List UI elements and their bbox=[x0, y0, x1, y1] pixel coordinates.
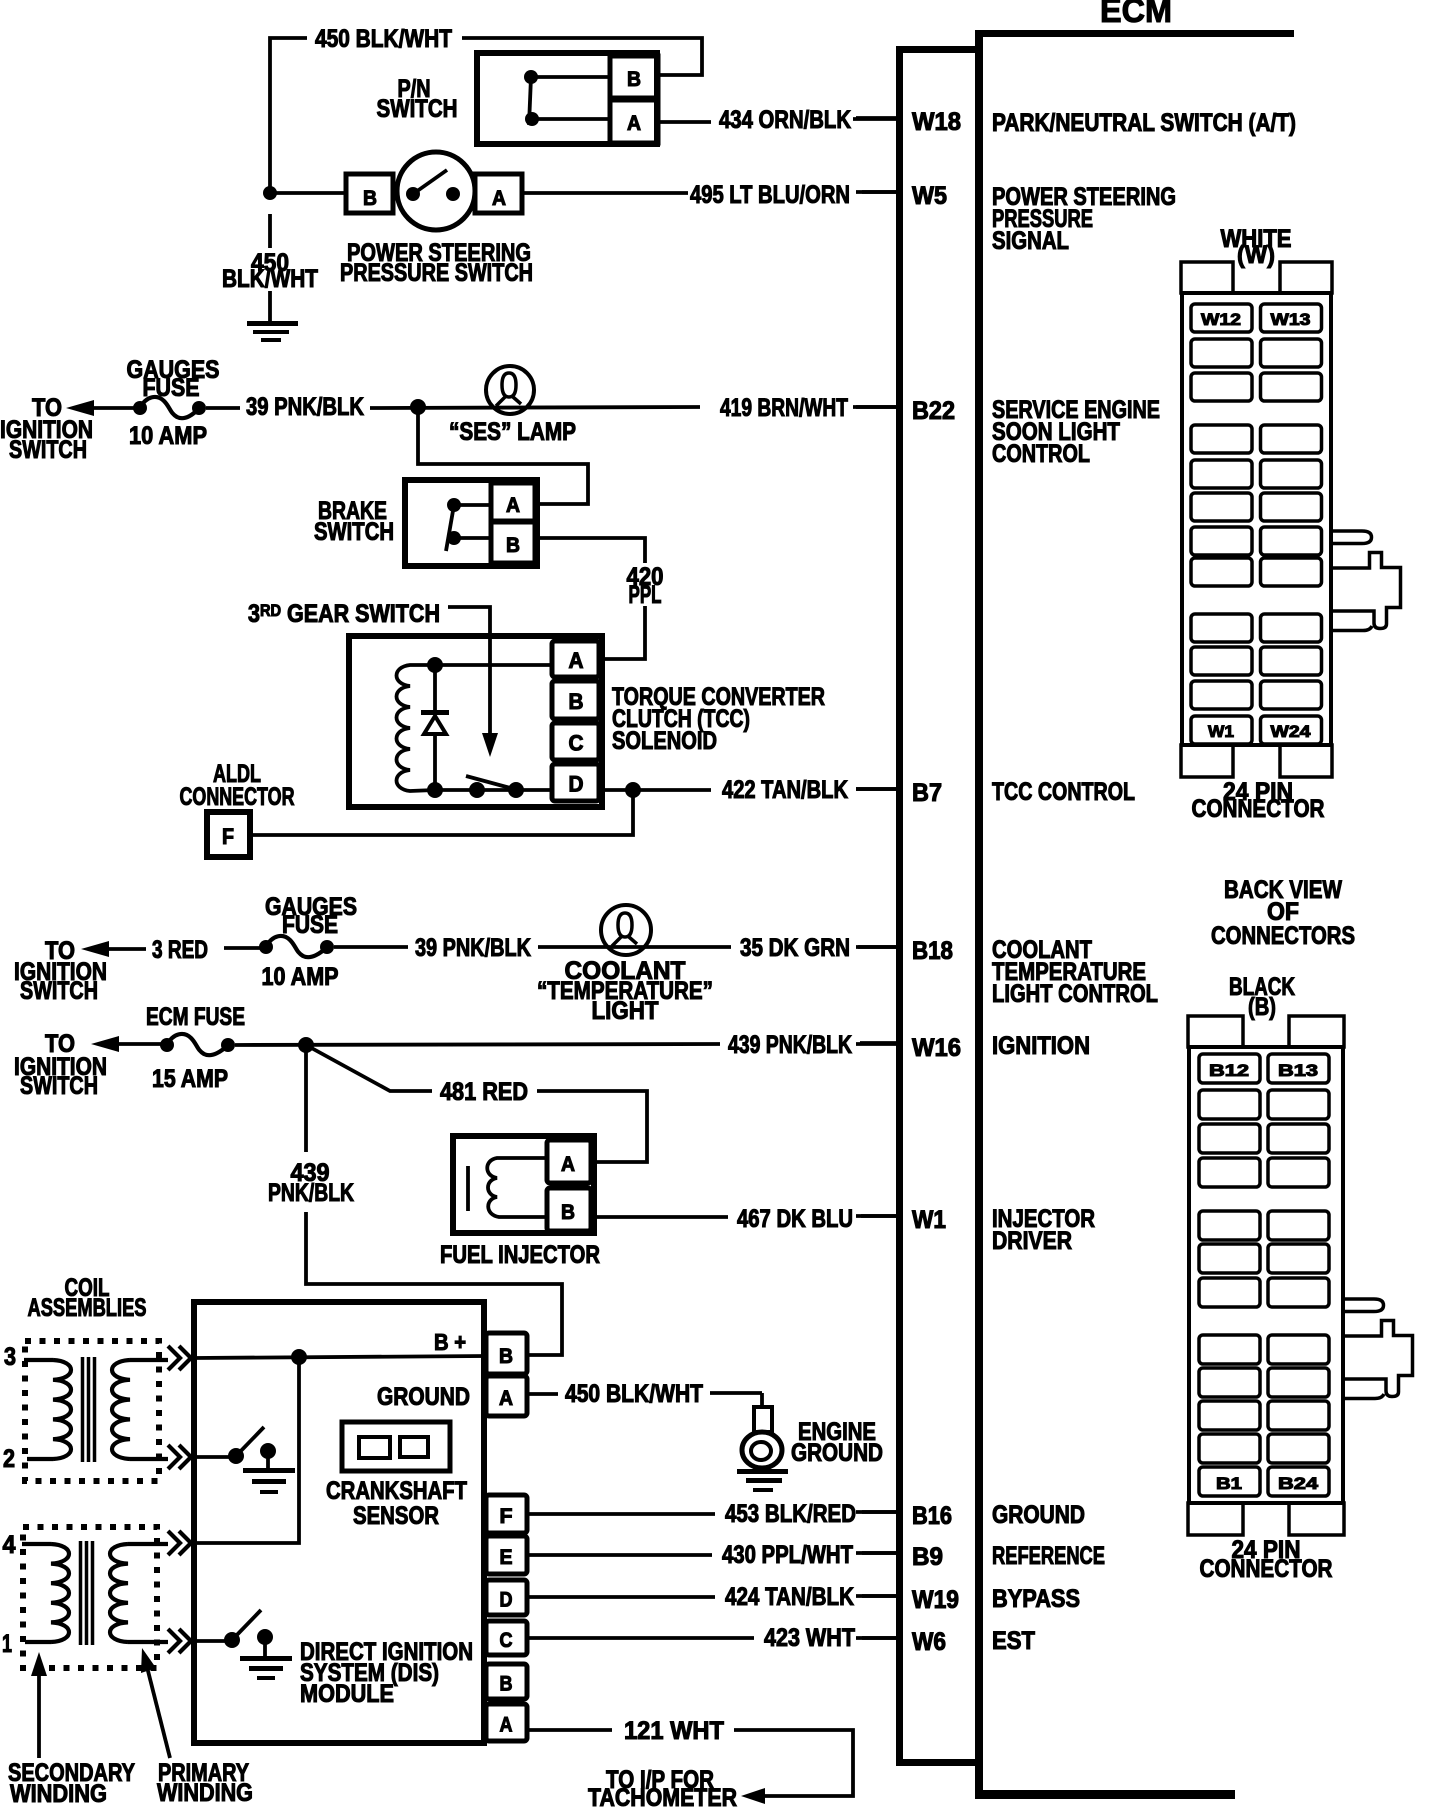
svg-text:PARK/NEUTRAL SWITCH (A/T): PARK/NEUTRAL SWITCH (A/T) bbox=[992, 109, 1296, 137]
DIS row 2 ground bbox=[266, 1451, 270, 1470]
svg-text:434 ORN/BLK: 434 ORN/BLK bbox=[719, 106, 851, 134]
svg-text:39 PNK/BLK: 39 PNK/BLK bbox=[246, 393, 364, 421]
ECM boundary bottom cap bbox=[896, 1759, 975, 1766]
black pin row 6 bbox=[1199, 1244, 1260, 1273]
wire DIS C to ECM (423 WHT) bbox=[528, 1636, 754, 1640]
svg-text:A: A bbox=[492, 187, 506, 210]
svg-text:B24: B24 bbox=[1278, 1474, 1319, 1493]
svg-text:B +: B + bbox=[434, 1329, 466, 1355]
svg-text:39 PNK/BLK: 39 PNK/BLK bbox=[415, 934, 531, 962]
svg-text:B: B bbox=[499, 1345, 513, 1368]
TCC internal wires bbox=[435, 663, 552, 667]
arrow to ignition switch (row 1) bbox=[66, 400, 94, 416]
wire ALDL F to TCC D node bbox=[250, 790, 633, 835]
svg-text:ASSEMBLIES: ASSEMBLIES bbox=[28, 1294, 147, 1322]
svg-text:B22: B22 bbox=[912, 397, 955, 425]
svg-text:B: B bbox=[627, 68, 641, 91]
DIS row 1 switch bbox=[194, 1639, 232, 1643]
svg-text:DRIVER: DRIVER bbox=[992, 1227, 1072, 1255]
svg-text:419 BRN/WHT: 419 BRN/WHT bbox=[720, 394, 848, 422]
svg-text:GROUND: GROUND bbox=[992, 1501, 1085, 1529]
ECM pin B18 stub bbox=[856, 945, 899, 949]
P/N switch contacts bbox=[524, 70, 538, 84]
svg-text:REFERENCE: REFERENCE bbox=[992, 1542, 1105, 1570]
wire brake B to TCC A (420 PPL) bbox=[537, 538, 645, 659]
svg-text:4: 4 bbox=[3, 1531, 16, 1559]
svg-text:E: E bbox=[500, 1546, 513, 1569]
white pin row 6 bbox=[1191, 493, 1252, 521]
ALDL pin F box bbox=[207, 812, 250, 857]
coil assembly dotted box coil 2 (cyl 4-1) bbox=[23, 1527, 157, 1668]
fuel injector box bbox=[453, 1136, 594, 1233]
svg-text:B18: B18 bbox=[912, 937, 953, 965]
svg-text:CONNECTOR: CONNECTOR bbox=[1200, 1555, 1333, 1583]
engine ground symbol bbox=[754, 1407, 772, 1432]
svg-text:A: A bbox=[627, 112, 641, 135]
P/N switch box bbox=[477, 53, 657, 144]
coil 1 primary winding bbox=[112, 1360, 130, 1459]
svg-text:424 TAN/BLK: 424 TAN/BLK bbox=[725, 1583, 854, 1611]
ECM top line bbox=[975, 30, 1294, 37]
coil 2 primary winding bbox=[110, 1544, 128, 1642]
black connector key profile bbox=[1343, 1299, 1413, 1399]
ECM pin B22 stub bbox=[856, 405, 899, 409]
DIS pin D (bottom) bbox=[486, 1580, 527, 1615]
wire ECM fuse to ECM (439 PNK/BLK) bbox=[235, 1044, 720, 1045]
DIS row 2 switch bbox=[194, 1455, 236, 1459]
junction node SES bbox=[410, 399, 426, 415]
coil 2 transformer core bbox=[79, 1541, 83, 1645]
coil 2 row 1 connector chevrons bbox=[168, 1629, 191, 1653]
svg-text:422 TAN/BLK: 422 TAN/BLK bbox=[722, 776, 848, 804]
white pin row 10 bbox=[1191, 647, 1252, 675]
svg-text:W16: W16 bbox=[912, 1034, 961, 1062]
svg-text:10 AMP: 10 AMP bbox=[262, 963, 339, 991]
svg-text:WINDING: WINDING bbox=[10, 1780, 107, 1808]
svg-text:(W): (W) bbox=[1237, 241, 1275, 269]
secondary winding pointer arrow bbox=[37, 1668, 41, 1758]
svg-text:B9: B9 bbox=[912, 1543, 943, 1571]
coil 1 row 3 connector chevrons bbox=[168, 1346, 191, 1370]
PS pin B bbox=[346, 174, 393, 213]
coil assembly dotted box coil 1 (cyl 3-2) bbox=[25, 1341, 159, 1481]
svg-text:B16: B16 bbox=[912, 1502, 952, 1530]
ECM pin W6 stub bbox=[856, 1636, 899, 1640]
svg-text:W13: W13 bbox=[1271, 310, 1311, 329]
svg-text:BYPASS: BYPASS bbox=[992, 1585, 1080, 1613]
svg-text:PRESSURE SWITCH: PRESSURE SWITCH bbox=[340, 259, 533, 287]
ECM pin B16 stub bbox=[856, 1510, 899, 1514]
primary winding pointer arrow bbox=[146, 1663, 170, 1758]
svg-text:WINDING: WINDING bbox=[157, 1779, 253, 1807]
DIS pin A (top) bbox=[486, 1376, 527, 1416]
wire DIS D to ECM (424 TAN/BLK) bbox=[528, 1595, 715, 1599]
wire junction to PS B bbox=[270, 191, 346, 195]
crankshaft sensor box bbox=[342, 1422, 450, 1471]
black pin row 2 bbox=[1199, 1090, 1260, 1119]
svg-text:A: A bbox=[569, 648, 584, 673]
svg-text:W12: W12 bbox=[1201, 310, 1241, 329]
svg-text:481 RED: 481 RED bbox=[440, 1078, 528, 1106]
svg-text:ECM FUSE: ECM FUSE bbox=[146, 1003, 245, 1031]
TCC pin A bbox=[552, 641, 599, 677]
ECM right boundary line bbox=[975, 30, 983, 1798]
svg-text:W24: W24 bbox=[1271, 722, 1312, 741]
svg-text:3 RED: 3 RED bbox=[152, 936, 208, 964]
svg-text:A: A bbox=[561, 1153, 575, 1176]
ECM pin W1 stub bbox=[856, 1214, 899, 1218]
svg-text:453 BLK/RED: 453 BLK/RED bbox=[725, 1500, 856, 1528]
coil 2 secondary winding leads bbox=[22, 1544, 51, 1642]
TCC pin D bbox=[552, 764, 599, 801]
white pin row 5 bbox=[1191, 460, 1252, 488]
DIS pin C (bottom) bbox=[486, 1621, 527, 1655]
ECM pin B7 stub bbox=[856, 787, 899, 791]
wire to ECM (419 BRN/WHT) bbox=[853, 405, 899, 409]
svg-text:TACHOMETER: TACHOMETER bbox=[588, 1784, 737, 1810]
white 24 pin connector body bbox=[1182, 293, 1331, 745]
ECM left boundary line bbox=[896, 46, 903, 1766]
wire PS A to ECM (495 LT BLU/ORN) bbox=[522, 191, 688, 195]
black pin row 12 bbox=[1199, 1467, 1260, 1496]
wire DIS E to ECM (430 PPL/WHT) bbox=[528, 1553, 712, 1557]
wire SES junction to brake switch A bbox=[418, 407, 588, 504]
PS switch contacts bbox=[406, 187, 420, 201]
PS pin A bbox=[475, 174, 522, 213]
ECM bottom line bbox=[975, 1790, 1235, 1799]
svg-text:W1: W1 bbox=[1208, 722, 1234, 741]
svg-text:430 PPL/WHT: 430 PPL/WHT bbox=[722, 1541, 853, 1569]
brake switch pin B bbox=[491, 522, 535, 563]
TCC solenoid box bbox=[349, 636, 602, 807]
svg-text:A: A bbox=[506, 494, 520, 517]
power steering pressure switch circle bbox=[397, 152, 475, 230]
svg-text:(B): (B) bbox=[1248, 993, 1276, 1021]
svg-text:LIGHT: LIGHT bbox=[592, 997, 659, 1025]
svg-text:A: A bbox=[500, 1714, 513, 1737]
ECM pin W5 stub bbox=[856, 190, 899, 194]
svg-text:CONNECTOR: CONNECTOR bbox=[180, 783, 295, 811]
white pin row 1 bbox=[1191, 304, 1252, 332]
P/N switch pin A bbox=[610, 100, 658, 143]
svg-text:MODULE: MODULE bbox=[300, 1680, 394, 1708]
white pin row 8 bbox=[1191, 558, 1252, 586]
svg-text:439 PNK/BLK: 439 PNK/BLK bbox=[728, 1031, 852, 1059]
wire TCC D to ECM (422 TAN/BLK) bbox=[601, 788, 711, 792]
black pin row 8 bbox=[1199, 1335, 1260, 1364]
svg-text:F: F bbox=[500, 1505, 513, 1528]
svg-text:SENSOR: SENSOR bbox=[353, 1502, 439, 1530]
svg-text:W1: W1 bbox=[912, 1206, 946, 1234]
svg-text:PNK/BLK: PNK/BLK bbox=[268, 1179, 354, 1207]
wire DIS A to tachometer (121 WHT) bbox=[528, 1730, 853, 1796]
svg-text:450 BLK/WHT: 450 BLK/WHT bbox=[315, 25, 452, 53]
coil 1 primary leads bbox=[130, 1360, 168, 1459]
ECM boundary top cap bbox=[896, 46, 975, 53]
coil 1 transformer core bbox=[81, 1357, 85, 1462]
wire 450 BLK/WHT top run bbox=[270, 38, 702, 193]
coil 2 primary leads bbox=[128, 1544, 168, 1642]
wire fuse to junction (39 PNK/BLK) bbox=[206, 406, 240, 410]
black pin row 11 bbox=[1199, 1434, 1260, 1463]
svg-text:TCC CONTROL: TCC CONTROL bbox=[992, 778, 1135, 806]
coil 2 row 4 connector chevrons bbox=[168, 1531, 191, 1555]
svg-text:35 DK GRN: 35 DK GRN bbox=[740, 934, 850, 962]
TCC pin B bbox=[552, 681, 599, 719]
svg-text:B13: B13 bbox=[1278, 1061, 1318, 1080]
white connector key profile bbox=[1331, 531, 1401, 631]
TCC coil bbox=[397, 665, 436, 791]
DIS pin B (top) bbox=[486, 1333, 527, 1374]
svg-text:PPL: PPL bbox=[629, 581, 662, 609]
svg-text:B: B bbox=[506, 534, 520, 557]
svg-text:CRANKSHAFT: CRANKSHAFT bbox=[326, 1477, 467, 1505]
svg-text:IGNITION: IGNITION bbox=[992, 1032, 1090, 1060]
white pin row 11 bbox=[1191, 681, 1252, 709]
svg-text:ECM: ECM bbox=[1100, 0, 1172, 30]
fuel injector pin B bbox=[547, 1188, 591, 1231]
black pin row 10 bbox=[1199, 1401, 1260, 1430]
white pin row 4 bbox=[1191, 425, 1252, 453]
white pin row 9 bbox=[1191, 614, 1252, 642]
wire 3rd gear arrow bbox=[448, 607, 490, 738]
svg-text:B: B bbox=[500, 1673, 513, 1696]
coolant temperature light lamp bbox=[601, 905, 651, 955]
svg-text:F: F bbox=[222, 824, 234, 849]
white connector bottom tabs bbox=[1181, 745, 1233, 777]
svg-text:W19: W19 bbox=[912, 1586, 959, 1614]
DIS pin A (bottom) bbox=[486, 1704, 527, 1741]
wire injector B to ECM (467 DK BLU) bbox=[593, 1215, 728, 1219]
svg-text:GROUND: GROUND bbox=[377, 1383, 470, 1411]
svg-text:1: 1 bbox=[2, 1630, 12, 1658]
SES lamp bbox=[486, 366, 534, 414]
svg-text:SWITCH: SWITCH bbox=[20, 977, 98, 1005]
white connector top tabs bbox=[1181, 262, 1233, 293]
svg-text:2: 2 bbox=[3, 1445, 15, 1473]
TCC internal nodes bbox=[427, 657, 443, 673]
black connector top tabs bbox=[1188, 1016, 1243, 1047]
svg-text:B: B bbox=[363, 187, 377, 210]
svg-text:450 BLK/WHT: 450 BLK/WHT bbox=[565, 1380, 703, 1408]
svg-text:CONNECTORS: CONNECTORS bbox=[1211, 922, 1355, 950]
svg-text:B1: B1 bbox=[1216, 1474, 1242, 1493]
wire P/N A to ECM (434 ORN/BLK) bbox=[660, 120, 711, 124]
fuse symbol (ECM 15 amp) bbox=[160, 1038, 174, 1052]
DIS pin E (bottom) bbox=[486, 1536, 527, 1574]
ECM pin W18 stub bbox=[856, 116, 899, 120]
svg-text:15 AMP: 15 AMP bbox=[152, 1065, 228, 1093]
coil 1 secondary winding leads bbox=[24, 1360, 53, 1459]
wire 439 PNK/BLK vertical to DIS B+ bbox=[306, 1045, 562, 1355]
DIS module box bbox=[194, 1302, 484, 1743]
svg-text:B12: B12 bbox=[1209, 1061, 1249, 1080]
DIS pin F (bottom) bbox=[486, 1495, 527, 1533]
wire DIS F to ECM (453 BLK/RED) bbox=[528, 1512, 715, 1516]
ECM pin W16 stub bbox=[856, 1042, 899, 1046]
black pin row 4 bbox=[1199, 1158, 1260, 1187]
svg-text:C: C bbox=[569, 731, 584, 756]
junction node 450/PS bbox=[263, 186, 277, 200]
svg-text:SWITCH: SWITCH bbox=[377, 95, 458, 123]
TCC switch bbox=[469, 782, 485, 798]
svg-text:495 LT BLU/ORN: 495 LT BLU/ORN bbox=[690, 181, 850, 209]
ground symbol (450 BLK/WHT) bbox=[268, 214, 272, 322]
svg-text:W6: W6 bbox=[912, 1628, 946, 1656]
black pin row 1 bbox=[1199, 1054, 1260, 1083]
svg-text:W18: W18 bbox=[912, 108, 961, 136]
ECM pin W19 stub bbox=[856, 1594, 899, 1598]
TCC diode bbox=[433, 665, 437, 714]
svg-text:467 DK BLU: 467 DK BLU bbox=[737, 1205, 853, 1233]
white pin row 7 bbox=[1191, 527, 1252, 555]
svg-text:SOLENOID: SOLENOID bbox=[612, 727, 717, 755]
svg-text:SWITCH: SWITCH bbox=[314, 518, 394, 546]
DIS row 1 ground bbox=[263, 1637, 267, 1658]
svg-text:LIGHT CONTROL: LIGHT CONTROL bbox=[992, 980, 1158, 1008]
white pin row 2 bbox=[1191, 339, 1252, 367]
coil 1 row 2 connector chevrons bbox=[168, 1445, 191, 1469]
svg-text:CONNECTOR: CONNECTOR bbox=[1192, 795, 1325, 823]
svg-text:W5: W5 bbox=[912, 182, 947, 210]
svg-text:B: B bbox=[561, 1201, 575, 1224]
svg-text:D: D bbox=[500, 1589, 513, 1612]
black pin row 5 bbox=[1199, 1211, 1260, 1240]
black connector bottom tabs bbox=[1188, 1503, 1243, 1535]
arrow to ignition switch (row 2) bbox=[81, 941, 109, 957]
svg-text:423 WHT: 423 WHT bbox=[764, 1624, 855, 1652]
svg-text:3: 3 bbox=[4, 1343, 16, 1371]
fuel injector pin A bbox=[547, 1140, 591, 1183]
wire DIS A to engine ground (450 BLK/WHT) bbox=[528, 1392, 558, 1396]
svg-text:B: B bbox=[569, 689, 584, 714]
white pin row 12 bbox=[1191, 716, 1252, 744]
svg-text:BLK/WHT: BLK/WHT bbox=[222, 265, 318, 293]
svg-text:GROUND: GROUND bbox=[791, 1439, 883, 1467]
TCC pin C bbox=[552, 723, 599, 760]
svg-text:10 AMP: 10 AMP bbox=[129, 422, 207, 450]
svg-text:C: C bbox=[500, 1629, 513, 1652]
svg-text:D: D bbox=[569, 772, 584, 797]
black pin row 7 bbox=[1199, 1278, 1260, 1307]
arrow to ignition switch (row 3) bbox=[91, 1036, 119, 1052]
wire 481 RED diagonal bbox=[306, 1045, 647, 1162]
DIS pin B (bottom) bbox=[486, 1664, 527, 1699]
svg-text:B7: B7 bbox=[912, 779, 942, 807]
black pin row 9 bbox=[1199, 1368, 1260, 1397]
fuse symbol (gauges row 2) bbox=[259, 940, 273, 954]
svg-text:A: A bbox=[499, 1387, 513, 1410]
svg-text:FUSE: FUSE bbox=[282, 911, 338, 939]
svg-text:FUEL INJECTOR: FUEL INJECTOR bbox=[440, 1241, 600, 1269]
DIS internal B+ bus wire bbox=[194, 1356, 486, 1358]
svg-text:SIGNAL: SIGNAL bbox=[992, 227, 1069, 255]
svg-text:121 WHT: 121 WHT bbox=[624, 1717, 724, 1745]
white pin row 3 bbox=[1191, 373, 1252, 401]
brake switch pin A bbox=[491, 483, 535, 521]
svg-text:“SES” LAMP: “SES” LAMP bbox=[449, 418, 576, 446]
brake switch contacts bbox=[447, 498, 461, 512]
coil 1 secondary winding bbox=[53, 1360, 71, 1459]
black 24 pin connector body bbox=[1189, 1047, 1343, 1503]
coil 2 secondary winding bbox=[51, 1544, 69, 1642]
brake switch box bbox=[405, 480, 537, 566]
svg-text:CONTROL: CONTROL bbox=[992, 440, 1090, 468]
fuel injector coil bbox=[487, 1158, 547, 1217]
svg-text:EST: EST bbox=[992, 1627, 1035, 1655]
P/N switch pin B bbox=[610, 56, 658, 98]
black pin row 3 bbox=[1199, 1124, 1260, 1153]
ECM pin B9 stub bbox=[856, 1551, 899, 1555]
svg-text:SWITCH: SWITCH bbox=[9, 436, 87, 464]
fuse symbol (gauges 10 amp) bbox=[133, 401, 147, 415]
svg-text:SWITCH: SWITCH bbox=[20, 1072, 98, 1100]
